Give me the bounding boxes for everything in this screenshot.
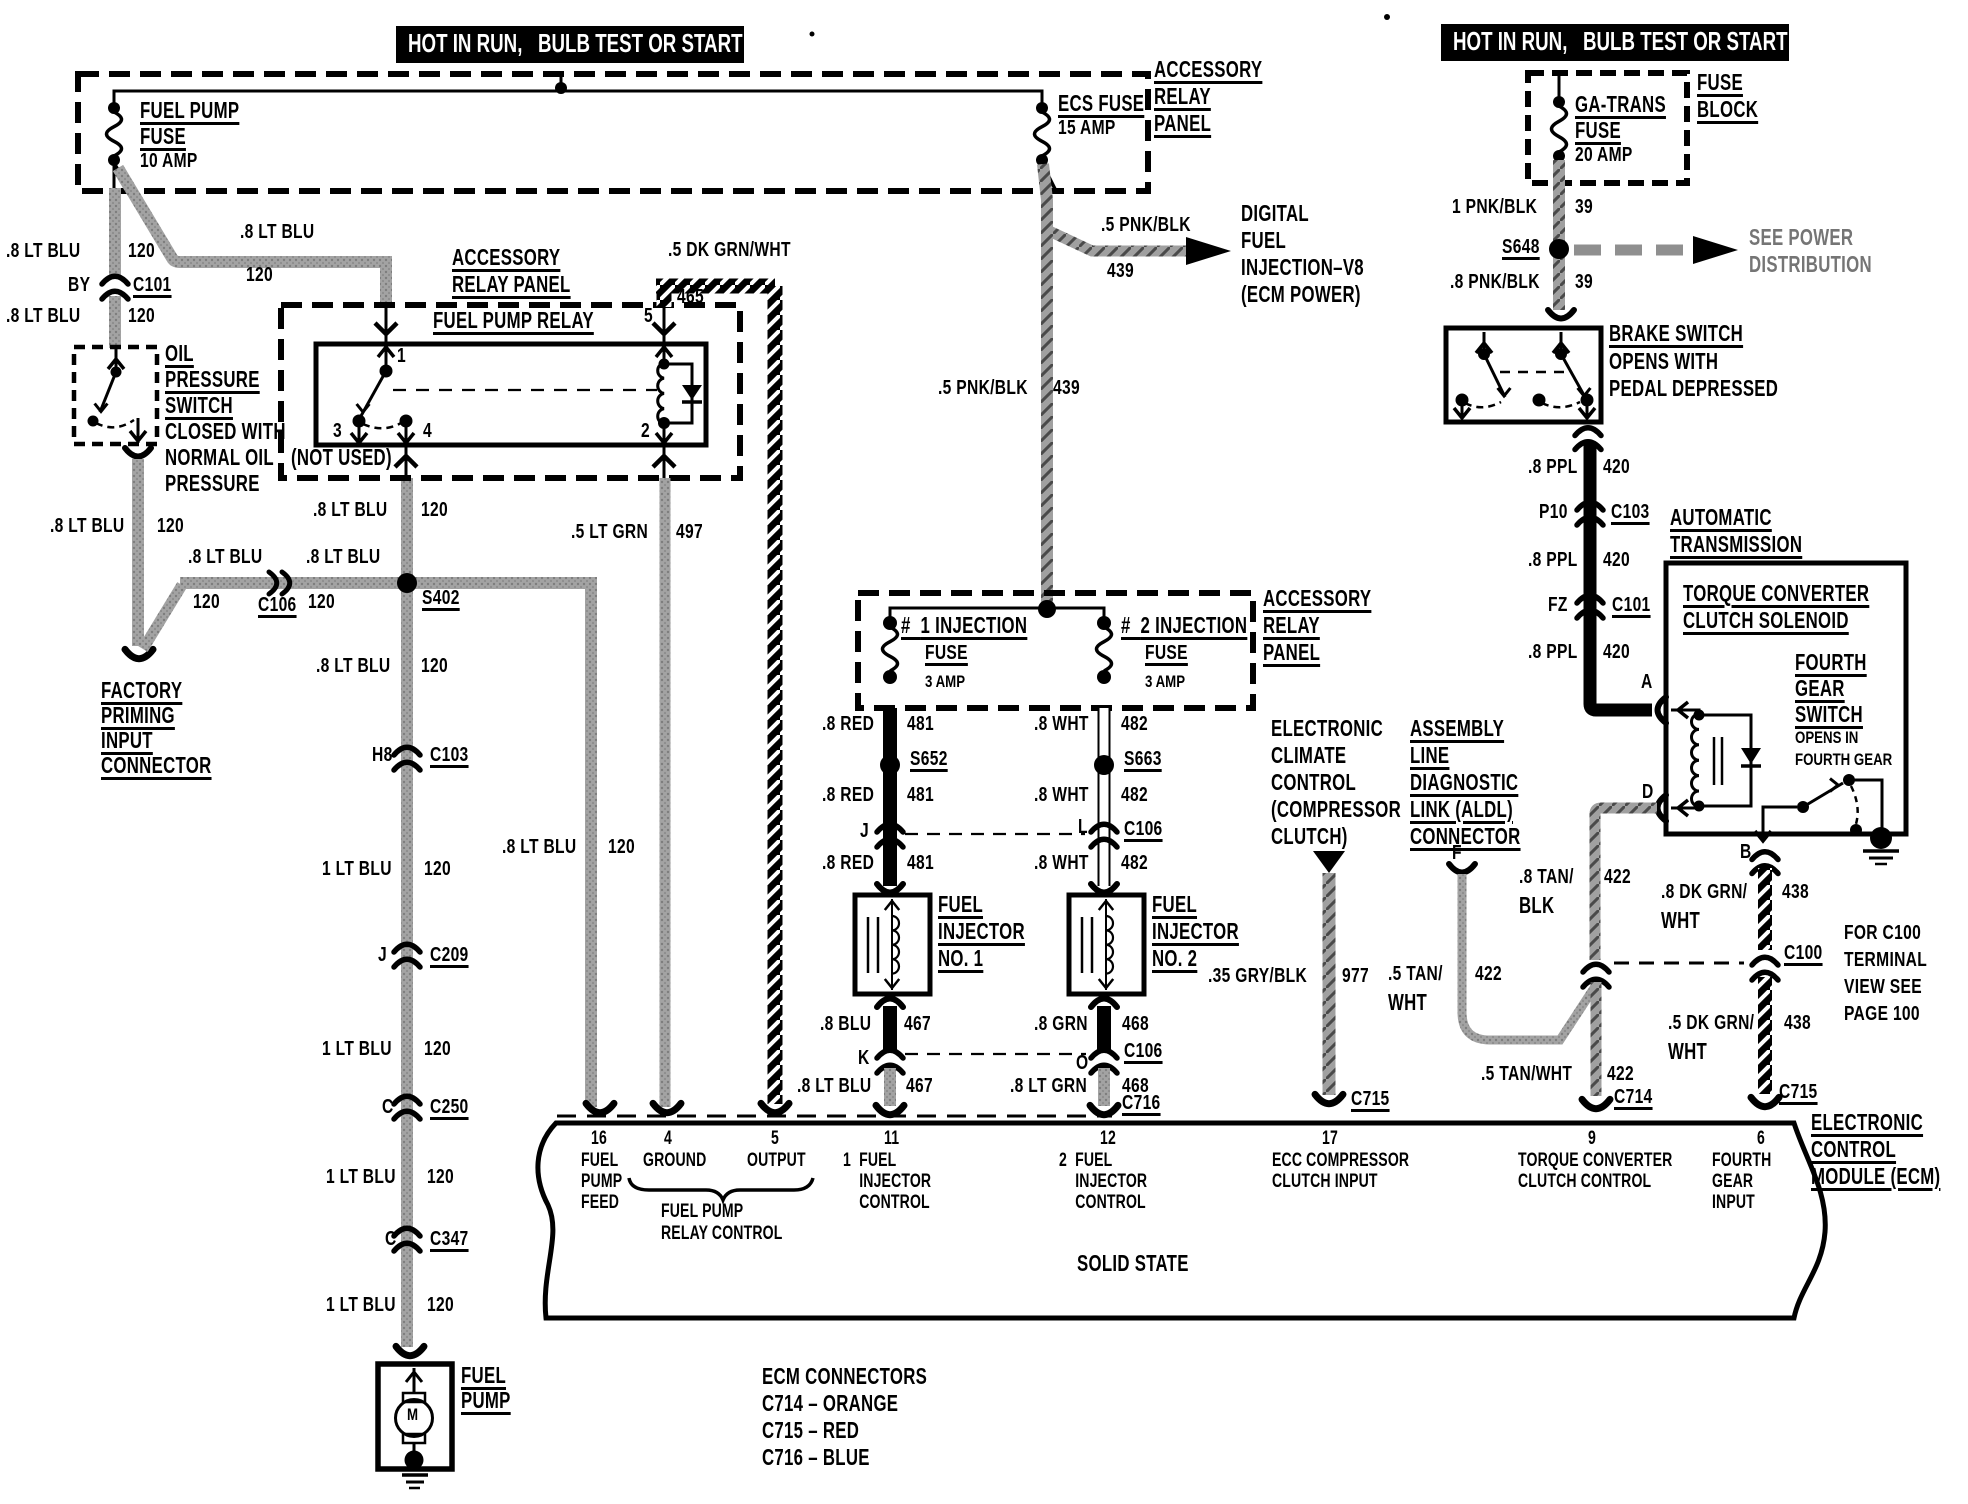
label 482 (1) bbox=[1121, 714, 1148, 734]
label C (C250) bbox=[382, 1097, 394, 1117]
label C209 bbox=[430, 945, 469, 965]
label .8 DK GRN/ (438) bbox=[1661, 882, 1747, 902]
ECM connectors note bbox=[762, 1365, 927, 1473]
label C103 (H8) bbox=[430, 745, 469, 765]
banner HOT IN RUN (left) bbox=[396, 26, 744, 63]
label 3 (relay) bbox=[333, 421, 342, 441]
label .8 WHT (2) bbox=[1034, 785, 1089, 805]
oil pressure switch: dashed throw bbox=[96, 420, 134, 427]
pin 17 label bbox=[1272, 1151, 1409, 1193]
fuel pump relay box bbox=[316, 344, 706, 445]
wire .8 DK GRN/WHT 438 (striped) bbox=[1758, 868, 1772, 950]
injection fuse panel dashed box bbox=[858, 593, 1253, 708]
ALDL connector label bbox=[1410, 717, 1521, 852]
label TRANSMISSION bbox=[1670, 533, 1802, 556]
ALDL terminal F connector bbox=[1449, 864, 1475, 873]
terminal A connector bbox=[1658, 697, 1667, 723]
wire .8 GRN 468 bbox=[1097, 1006, 1111, 1052]
label OPENS IN bbox=[1795, 729, 1858, 746]
connector C106 pin O bbox=[1091, 1050, 1117, 1058]
pin 9 label bbox=[1518, 1151, 1672, 1193]
label .5 TAN/ (aldl) bbox=[1388, 964, 1443, 984]
label RELAY PANEL bbox=[452, 273, 571, 296]
relay terminal 1 connector bbox=[375, 323, 397, 334]
tcc coil top node bbox=[1694, 710, 1705, 721]
fourth gear switch label bbox=[1795, 651, 1867, 729]
pin 6 bbox=[1757, 1129, 1765, 1148]
pin 17 bbox=[1322, 1129, 1338, 1148]
label .8 LT BLU (left lower) bbox=[6, 306, 80, 326]
tcc diode loop bbox=[1699, 715, 1751, 806]
label FUEL (pump) bbox=[461, 1364, 506, 1387]
connector (tan junction) bbox=[1583, 964, 1609, 972]
label .8 PPL (1) bbox=[1528, 457, 1578, 477]
label 420 (1) bbox=[1603, 457, 1630, 477]
label 977 bbox=[1342, 966, 1369, 986]
label C106 bbox=[258, 595, 297, 615]
connector C347 (C) bbox=[394, 1228, 420, 1236]
wire: relay terminal 2 to ECM pin 4 (.5 LT GRN, gray) bbox=[660, 478, 671, 1107]
label C715 (17) bbox=[1351, 1089, 1390, 1109]
#2 injection fuse F4 bbox=[1097, 616, 1111, 630]
label 482 (3) bbox=[1121, 853, 1148, 873]
label 438 (a) bbox=[1782, 882, 1809, 902]
wire .5 TAN/WHT 422 to ECM pin 9 (hatched) bbox=[1591, 982, 1602, 1096]
connector C103 (H8) bbox=[394, 747, 420, 755]
label C715 (6) bbox=[1779, 1082, 1818, 1102]
label J (C106) bbox=[860, 821, 869, 841]
label .5 DK GRN/WHT (465) bbox=[668, 240, 791, 260]
tcc solenoid feed bbox=[1671, 710, 1699, 714]
#1 injection fuse F3 bbox=[883, 616, 897, 630]
ECM pin 16 connector bbox=[586, 1103, 614, 1112]
wire: S648 to power distribution (gray dashes) bbox=[1574, 245, 1693, 256]
label B (terminal) bbox=[1740, 842, 1752, 862]
ground symbol (fuel pump) bbox=[402, 1473, 428, 1477]
label .8 LT BLU (below relay) bbox=[313, 500, 387, 520]
pin 11 bbox=[884, 1129, 899, 1148]
label .8 WHT (1) bbox=[1034, 714, 1089, 734]
wire: striped 465 end at pin 5 bbox=[768, 1095, 783, 1104]
label 3 AMP (#1) bbox=[925, 673, 965, 690]
fuel injector no.1 label bbox=[938, 893, 1025, 974]
label 467 (blu) bbox=[904, 1014, 931, 1034]
label .8 LT BLU (C106 right) bbox=[306, 547, 380, 567]
wire .8 LT GRN 468 (to ECM pin 12) bbox=[1098, 1068, 1110, 1106]
label C101 (FZ) bbox=[1612, 595, 1651, 615]
label 20 AMP bbox=[1575, 145, 1633, 165]
relay linkage dashed bbox=[393, 389, 657, 391]
pin 12 bbox=[1100, 1129, 1116, 1148]
stray mark bbox=[1384, 14, 1390, 20]
label # 1 INJECTION bbox=[901, 614, 1027, 637]
label BY bbox=[68, 275, 90, 295]
connector C209 (J) bbox=[394, 944, 420, 952]
fuel pump: upper brush bbox=[403, 1393, 425, 1402]
label .5 TAN/WHT (9) bbox=[1481, 1064, 1572, 1084]
fuel injector no.2 box bbox=[1069, 895, 1144, 994]
arrowhead to DFI bbox=[1186, 237, 1231, 265]
label .8 TAN/ bbox=[1519, 867, 1574, 887]
label 120 (left lower) bbox=[128, 306, 155, 326]
label C106 (L) bbox=[1124, 819, 1163, 839]
wire .8 PPL 420 (brake to A) bbox=[1590, 444, 1652, 710]
label 1 LT BLU (4) bbox=[326, 1295, 396, 1315]
connector C714 pin 9 bbox=[1582, 1099, 1610, 1108]
pin 4 bbox=[664, 1129, 672, 1148]
wire: horizontal .8 LT BLU run C106-S402 (gray) bbox=[180, 577, 407, 589]
connector C716 pin 12 bbox=[1090, 1105, 1118, 1114]
tcc solenoid return bbox=[1671, 806, 1699, 808]
wire: C101 to oil pressure switch (gray) bbox=[109, 296, 121, 348]
label O (C106) bbox=[1076, 1053, 1088, 1073]
label FUSE (ga) bbox=[1575, 119, 1621, 142]
label 422 (9) bbox=[1607, 1064, 1634, 1084]
label 438 (b) bbox=[1784, 1013, 1811, 1033]
label C250 bbox=[430, 1097, 469, 1117]
label 422 (tan) bbox=[1604, 867, 1631, 887]
oil pressure switch: left contact bbox=[88, 416, 99, 427]
label 481 (1) bbox=[907, 714, 934, 734]
label .5 PNK/BLK (main) bbox=[938, 378, 1028, 398]
label .8 LT BLU (below S402) bbox=[316, 656, 390, 676]
connector C106 (left run) bbox=[269, 572, 277, 594]
wire .8 WHT 482 white core bbox=[1100, 708, 1109, 886]
label .8 LT BLU (branch) bbox=[240, 222, 314, 242]
terminal D connector bbox=[1658, 795, 1667, 821]
connector below injector 1 bbox=[877, 999, 903, 1008]
label H8 bbox=[372, 745, 393, 765]
label (NOT USED) bbox=[291, 446, 392, 469]
label AUTOMATIC bbox=[1670, 506, 1772, 529]
GA-TRANS fuse F5 bbox=[1558, 75, 1561, 102]
label 120 (1) bbox=[424, 859, 451, 879]
connector C101 (FZ) bbox=[1577, 595, 1603, 603]
brake switch box bbox=[1446, 328, 1601, 422]
label 120 (below S402) bbox=[421, 656, 448, 676]
brace fuel pump relay control bbox=[629, 1178, 813, 1200]
label 1 LT BLU (3) bbox=[326, 1167, 396, 1187]
label FUEL PUMP bbox=[140, 99, 239, 122]
label # 2 INJECTION bbox=[1121, 614, 1247, 637]
label .8 LT GRN bbox=[1010, 1076, 1087, 1096]
tcc coil bottom node bbox=[1694, 801, 1705, 812]
label WHT (438a) bbox=[1661, 909, 1700, 932]
label .8 LT BLU (467) bbox=[797, 1076, 871, 1096]
label S663 bbox=[1124, 749, 1162, 769]
label 1 LT BLU (1) bbox=[322, 859, 392, 879]
label 468 (lt grn) bbox=[1122, 1076, 1149, 1096]
label 120 (C106 right) bbox=[308, 592, 335, 612]
label 120 (3) bbox=[427, 1167, 454, 1187]
label 39 (2) bbox=[1575, 272, 1593, 292]
connector C106 pin J bbox=[877, 824, 903, 832]
label SEE POWER bbox=[1749, 226, 1853, 249]
label C100 bbox=[1784, 943, 1823, 963]
relay terminal 2 exit connector bbox=[653, 456, 675, 467]
label .35 GRY/BLK bbox=[1208, 966, 1307, 986]
pin 16 label bbox=[581, 1151, 622, 1214]
relay terminal 5 arrow bbox=[656, 347, 672, 357]
automatic transmission box bbox=[1666, 563, 1906, 834]
label C714 bbox=[1614, 1087, 1653, 1107]
fuel injector no.2 label bbox=[1152, 893, 1239, 974]
wire .8 WHT 482 (upper, white wire) bbox=[1098, 708, 1111, 886]
label WHT (438b) bbox=[1668, 1040, 1707, 1063]
wire: fuse down to C101 (gray) bbox=[109, 188, 121, 276]
label C716 bbox=[1122, 1093, 1161, 1113]
label 481 (3) bbox=[907, 853, 934, 873]
label .5 PNK/BLK (branch) bbox=[1101, 215, 1191, 235]
label SOLID STATE bbox=[1077, 1252, 1189, 1275]
ECM module outline bbox=[538, 1123, 1825, 1318]
fuel injector no.1 box bbox=[855, 895, 930, 994]
connector C715 pin 6 bbox=[1751, 1097, 1779, 1106]
fuel pump box bbox=[378, 1364, 452, 1469]
connector C106 pin K bbox=[877, 1050, 903, 1058]
label 1 PNK/BLK bbox=[1452, 197, 1537, 217]
pin 11 label bbox=[843, 1151, 931, 1214]
label PUMP (pump) bbox=[461, 1389, 511, 1412]
banner text left bbox=[408, 30, 743, 56]
wire .8 LT BLU 467 (to ECM pin 11) bbox=[884, 1068, 896, 1106]
connector above brake switch bbox=[1548, 310, 1574, 319]
label FOURTH GEAR bbox=[1795, 751, 1892, 768]
label FUSE bbox=[140, 125, 186, 148]
wire .5 DK GRN/WHT 438 (striped) bbox=[1758, 977, 1772, 1094]
label C101 bbox=[133, 275, 172, 295]
label .8 PPL (3) bbox=[1528, 642, 1578, 662]
label 1 LT BLU (2) bbox=[322, 1039, 392, 1059]
wire: oil switch to factory priming (gray) bbox=[132, 459, 144, 646]
wire: ECS fuse lead-out bbox=[1042, 163, 1056, 191]
label C (C347) bbox=[385, 1229, 397, 1249]
climate control source triangle bbox=[1313, 851, 1345, 873]
dashed tie K-O bbox=[905, 1053, 1086, 1055]
accessory relay panel label (injection) bbox=[1263, 587, 1371, 668]
tcc coil core lines bbox=[1713, 737, 1716, 785]
node: feed junction bbox=[1038, 600, 1056, 618]
connector C715 pin 17 bbox=[1315, 1094, 1343, 1103]
label FZ bbox=[1548, 595, 1568, 615]
arrowhead power distribution bbox=[1693, 236, 1738, 264]
label 482 (2) bbox=[1121, 785, 1148, 805]
oil pressure switch: top terminal arrow bbox=[115, 347, 118, 372]
terminal B connector bbox=[1752, 852, 1778, 860]
wire 465: relay terminal 5 to ECM pin 5 (.5 DK GRN/WHT striped) bbox=[656, 286, 775, 1104]
relay coil top node bbox=[659, 359, 670, 370]
brake switch right pole bbox=[1560, 332, 1563, 354]
label 1 (relay) bbox=[397, 346, 406, 366]
label J (C209) bbox=[378, 945, 387, 965]
fuse panel dashed box (accessory relay panel, left) bbox=[78, 74, 1148, 191]
label FUSE (#2) bbox=[1145, 643, 1188, 663]
relay dashed throw 3-4 bbox=[363, 423, 401, 428]
label F (ALDL) bbox=[1452, 843, 1462, 863]
relay terminal 3 contact bbox=[353, 415, 366, 428]
dashed tie J-L bbox=[905, 833, 1085, 835]
label ACCESSORY (relay panel) bbox=[452, 246, 560, 269]
label P10 bbox=[1539, 502, 1568, 522]
banner HOT IN RUN (right) bbox=[1441, 24, 1789, 61]
ECM pin 4 connector bbox=[653, 1103, 681, 1112]
label 120 (oil sw) bbox=[157, 516, 184, 536]
banner text right bbox=[1453, 28, 1788, 54]
label C103 (P10) bbox=[1611, 502, 1650, 522]
label 439 (branch) bbox=[1107, 261, 1134, 281]
label .8 WHT (3) bbox=[1034, 853, 1089, 873]
label 120 (4) bbox=[427, 1295, 454, 1315]
relay terminal 1 contact bbox=[380, 365, 393, 378]
wire: priming connector diagonal to C106 run (gray) bbox=[143, 585, 182, 649]
connector C100 bbox=[1752, 957, 1778, 965]
label .8 LT BLU (oil sw) bbox=[50, 516, 124, 536]
ECM name label bbox=[1811, 1111, 1940, 1192]
label ECS FUSE bbox=[1058, 92, 1144, 115]
fuse block dashed box bbox=[1528, 73, 1687, 183]
label 468 (grn) bbox=[1122, 1014, 1149, 1034]
label 420 (3) bbox=[1603, 642, 1630, 662]
label C106 (O) bbox=[1124, 1041, 1163, 1061]
relay diode bbox=[682, 385, 702, 400]
factory priming input connector label bbox=[101, 679, 212, 779]
brake switch linkage dashed bbox=[1500, 371, 1568, 374]
fuel pump motor M bbox=[396, 1400, 433, 1437]
splice S648 bbox=[1549, 239, 1569, 259]
label BLOCK bbox=[1697, 98, 1758, 121]
wire .8 TAN/BLK 422 (hatched) bbox=[1595, 808, 1657, 960]
relay clamp diode loop bbox=[664, 364, 692, 423]
label 10 AMP bbox=[140, 151, 198, 171]
label S652 bbox=[910, 749, 948, 769]
label 481 (2) bbox=[907, 785, 934, 805]
label 120 (left upper) bbox=[128, 241, 155, 261]
fourth gear switch bbox=[1763, 807, 1797, 840]
fuel pump relay control label bbox=[661, 1202, 782, 1246]
node: bus tap to panel top bbox=[555, 82, 567, 94]
label K (C106) bbox=[858, 1048, 870, 1068]
brake switch left pole bbox=[1483, 332, 1486, 354]
fuel pump connector bbox=[396, 1346, 424, 1355]
pin 5 label OUTPUT bbox=[747, 1151, 806, 1170]
label 5 (relay) bbox=[644, 306, 653, 326]
relay coil bottom node bbox=[658, 417, 670, 429]
label GA-TRANS bbox=[1575, 93, 1666, 116]
label CLUTCH SOLENOID bbox=[1683, 609, 1849, 632]
label DISTRIBUTION bbox=[1749, 253, 1872, 276]
pin 6 label bbox=[1712, 1151, 1771, 1214]
accessory relay panel dashed box bbox=[281, 305, 740, 478]
label 467 (lt blu) bbox=[906, 1076, 933, 1096]
wire: S402 run to ECM pin 16 (gray) bbox=[407, 583, 591, 1107]
injector 2 internals bbox=[1081, 917, 1084, 973]
label 465 bbox=[677, 287, 704, 307]
label .8 PPL (2) bbox=[1528, 550, 1578, 570]
label BRAKE SWITCH bbox=[1609, 322, 1743, 345]
fuel pump: feed arrow bbox=[413, 1368, 416, 1393]
digital fuel injection note bbox=[1241, 202, 1364, 310]
relay terminal 2 exit lead bbox=[663, 445, 666, 478]
pin 12 label bbox=[1059, 1151, 1147, 1214]
wire 1 PNK/BLK 39 (hatched) bbox=[1553, 160, 1565, 310]
pin 4 label GROUND bbox=[643, 1151, 706, 1170]
relay terminal 5 lead bbox=[663, 305, 666, 362]
hot feed bus wire bbox=[114, 91, 1042, 112]
oil pressure switch: bottom terminal arrow bbox=[137, 418, 140, 443]
label PEDAL DEPRESSED bbox=[1609, 377, 1778, 400]
oil pressure switch: top contact bbox=[111, 367, 122, 378]
pin 9 bbox=[1588, 1129, 1596, 1148]
relay switch arm bbox=[361, 371, 386, 416]
label 120 (2) bbox=[424, 1039, 451, 1059]
oil pressure switch: movable arm bbox=[100, 372, 116, 412]
splice S652 bbox=[880, 755, 900, 775]
fuel pump: lower brush bbox=[403, 1434, 425, 1443]
label 120 (pin16 run) bbox=[608, 837, 635, 857]
label 120 (C106 left) bbox=[193, 592, 220, 612]
label FUSE (block) bbox=[1697, 71, 1743, 94]
label 2 (relay) bbox=[641, 421, 650, 441]
tcc solenoid coil bbox=[1692, 714, 1700, 806]
label D (terminal) bbox=[1642, 782, 1654, 802]
label .8 BLU bbox=[820, 1014, 871, 1034]
relay terminal 4 exit lead bbox=[405, 445, 408, 478]
for C100 terminal view note bbox=[1844, 923, 1927, 1031]
label 4 (relay) bbox=[423, 421, 432, 441]
label TORQUE CONVERTER bbox=[1683, 582, 1869, 605]
connector C106 pin L bbox=[1091, 824, 1117, 832]
label S402 bbox=[422, 588, 460, 608]
label M (motor) bbox=[407, 1406, 418, 1423]
accessory relay panel label (top right) bbox=[1154, 58, 1262, 139]
ECS fuse F2 bbox=[1036, 102, 1048, 114]
fuel pump: case ground dot bbox=[405, 1451, 424, 1470]
connector under oil switch bbox=[125, 448, 151, 457]
label 422 (aldl) bbox=[1475, 964, 1502, 984]
label .8 PNK/BLK bbox=[1450, 272, 1540, 292]
fourth gear switch ground bbox=[1870, 827, 1892, 849]
label FUEL PUMP RELAY bbox=[433, 309, 594, 332]
relay terminal 5 connector bbox=[653, 323, 675, 334]
tcc diode bbox=[1741, 748, 1761, 764]
label S648 bbox=[1502, 237, 1540, 257]
ECM pin 5 connector bbox=[761, 1103, 789, 1112]
dashed tie C100 bbox=[1614, 962, 1744, 965]
ECM dashed connector line bbox=[557, 1115, 1112, 1118]
relay terminal 1 arrow bbox=[378, 347, 394, 357]
connector at injector 2 bbox=[1091, 884, 1117, 893]
connector at injector 1 bbox=[877, 884, 903, 893]
splice S663 bbox=[1094, 755, 1114, 775]
wire .8 RED 481 (upper) bbox=[883, 708, 897, 886]
label C347 bbox=[430, 1229, 469, 1249]
label 120 (branch) bbox=[246, 265, 273, 285]
relay terminal 4 contact bbox=[400, 415, 413, 428]
label 497 bbox=[676, 522, 703, 542]
pin 16 bbox=[591, 1129, 607, 1148]
label .8 GRN bbox=[1034, 1014, 1088, 1034]
connector C716 pin 11 bbox=[876, 1105, 904, 1114]
wire: relay terminal 4 to fuel pump (gray) bbox=[401, 478, 413, 1347]
label .8 RED (2) bbox=[822, 785, 874, 805]
label .8 LT BLU (pin16 run) bbox=[502, 837, 576, 857]
relay terminal 4 exit connector bbox=[395, 456, 417, 467]
relay terminal 1 lead bbox=[385, 305, 388, 371]
splice S402 bbox=[397, 573, 417, 593]
wire .35 GRY/BLK 977 (hatched) bbox=[1323, 873, 1336, 1095]
label .5 LT GRN bbox=[571, 522, 648, 542]
oil pressure switch dashed box bbox=[74, 347, 157, 444]
